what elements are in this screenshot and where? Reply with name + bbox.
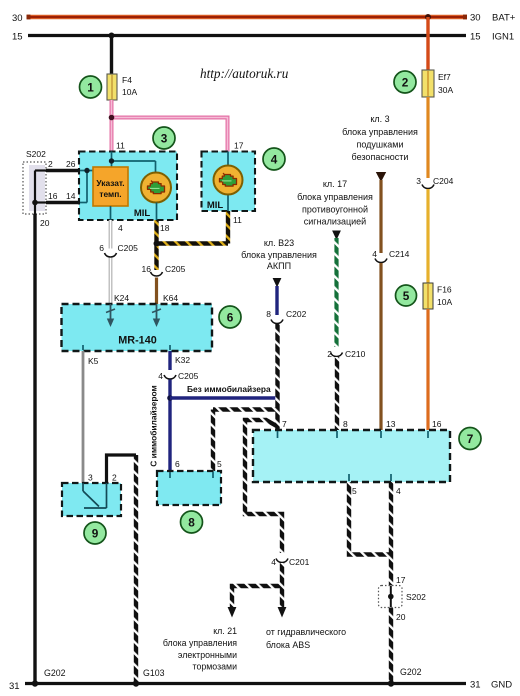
svg-text:4: 4 xyxy=(372,249,377,259)
svg-text:блока управления: блока управления xyxy=(163,638,237,648)
svg-text:противоугонной: противоугонной xyxy=(302,205,368,215)
svg-text:блока ABS: блока ABS xyxy=(266,640,310,650)
bus 30 BAT+ xyxy=(27,15,468,20)
connector C210 xyxy=(331,353,343,357)
node pink junction xyxy=(109,115,115,121)
svg-text:C204: C204 xyxy=(433,176,454,186)
svg-text:2: 2 xyxy=(112,473,117,483)
svg-text:4: 4 xyxy=(271,557,276,567)
wire bw to G103 xyxy=(134,455,138,684)
svg-text:6: 6 xyxy=(175,459,180,469)
module 3 instrument cluster xyxy=(79,152,177,221)
label кл. 3 block xyxy=(342,114,418,162)
wire Ef7 to C204 xyxy=(426,97,429,178)
wire by horizontal to pin18 wire xyxy=(157,241,229,245)
wire bw branch to brake module xyxy=(232,586,282,608)
svg-text:8: 8 xyxy=(343,419,348,429)
module 4 MIL lamp xyxy=(202,152,256,212)
wire bw C201 down xyxy=(280,563,284,608)
svg-text:4: 4 xyxy=(118,223,123,233)
wire S202-16 to box3-14 xyxy=(46,201,80,205)
svg-text:G202: G202 xyxy=(400,667,422,677)
svg-text:8: 8 xyxy=(266,309,271,319)
svg-text:MR-140: MR-140 xyxy=(118,335,156,347)
svg-text:17: 17 xyxy=(234,141,244,151)
callout 9 xyxy=(84,522,106,544)
bus 31 GND xyxy=(25,682,466,685)
svg-text:11: 11 xyxy=(233,215,242,225)
svg-text:10A: 10A xyxy=(437,297,452,307)
svg-text:K5: K5 xyxy=(88,356,99,366)
module 7 xyxy=(253,430,450,482)
wire box3 lamp to pin18 xyxy=(156,203,158,221)
svg-text:2: 2 xyxy=(48,159,53,169)
svg-text:30: 30 xyxy=(12,13,23,24)
wire S202-2 to box3-26 xyxy=(46,169,80,173)
svg-text:2: 2 xyxy=(402,76,409,90)
label кл. 21 block xyxy=(163,626,237,672)
svg-text:кл. 21: кл. 21 xyxy=(213,626,237,636)
wire box3 internal 26-14 link xyxy=(80,171,93,203)
arrow alarm source xyxy=(332,231,341,241)
svg-text:Без иммобилайзера: Без иммобилайзера xyxy=(187,384,271,394)
node box3 pin11 xyxy=(109,158,114,163)
symbol arrow K64 input xyxy=(152,304,161,327)
node 15-junction xyxy=(109,33,115,39)
svg-text:7: 7 xyxy=(282,419,287,429)
svg-text:F4: F4 xyxy=(122,75,132,85)
gauge Указат. темп. xyxy=(93,167,128,206)
wire bw tap to C201 xyxy=(245,420,282,553)
bus 15 IGN1 xyxy=(28,34,466,37)
switch box9 xyxy=(83,483,107,508)
callout 6 xyxy=(219,306,241,328)
svg-text:6: 6 xyxy=(99,243,104,253)
wire bw C202 to box7 pin7 xyxy=(275,324,279,430)
wire box4 pin11 down xyxy=(226,211,230,244)
svg-text:АКПП: АКПП xyxy=(267,261,291,271)
wire bw box8 pin5 xyxy=(211,410,215,472)
svg-text:сигнализацией: сигнализацией xyxy=(304,217,366,227)
wire box4 internal xyxy=(227,152,229,212)
wire box3 internal pin11 xyxy=(111,152,156,174)
svg-text:C214: C214 xyxy=(389,249,410,259)
svg-text:16: 16 xyxy=(142,264,152,274)
wire 15 to fuse F4 xyxy=(110,36,113,75)
svg-text:C201: C201 xyxy=(289,557,310,567)
svg-text:C210: C210 xyxy=(345,349,366,359)
svg-text:C205: C205 xyxy=(178,371,199,381)
callout 5 xyxy=(396,285,417,306)
wire K32 blue upper xyxy=(168,351,171,370)
label кл. B23 xyxy=(241,238,317,271)
svg-text:GND: GND xyxy=(491,680,512,691)
svg-text:C202: C202 xyxy=(286,309,307,319)
svg-text:MIL: MIL xyxy=(207,200,224,211)
callout 1 xyxy=(80,76,102,98)
svg-text:9: 9 xyxy=(92,527,99,541)
module 9 xyxy=(62,483,121,516)
symbol arrow K24 input xyxy=(106,304,115,327)
svg-text:30: 30 xyxy=(470,13,481,24)
fuse F4 xyxy=(107,74,117,100)
svg-text:K64: K64 xyxy=(163,293,178,303)
wire MR140 pin stubs xyxy=(83,345,170,350)
node immobilizer split xyxy=(167,395,173,401)
connector C205 pin16 xyxy=(151,272,163,276)
wire brown airbag to C214 xyxy=(379,180,382,253)
indicator MIL lamp box4 xyxy=(214,166,243,195)
svg-text:кл. В23: кл. В23 xyxy=(264,238,294,248)
svg-text:15: 15 xyxy=(470,32,481,43)
svg-text:13: 13 xyxy=(386,419,396,429)
svg-text:темп.: темп. xyxy=(99,189,121,199)
svg-text:15: 15 xyxy=(12,32,23,43)
svg-text:F16: F16 xyxy=(437,285,452,295)
wire blue branch without immobilizer xyxy=(170,396,278,399)
wire bw box7 pin4 to ground xyxy=(389,482,393,684)
node by junction xyxy=(154,241,160,247)
svg-text:26: 26 xyxy=(66,159,76,169)
wire K5 grey xyxy=(82,351,85,484)
wire B23 blue xyxy=(275,286,278,315)
wire box9 pin2 black xyxy=(107,455,137,483)
svg-text:K32: K32 xyxy=(175,355,190,365)
svg-text:17: 17 xyxy=(396,575,406,585)
svg-text:от гидравлического: от гидравлического xyxy=(266,627,346,637)
wire K24 white from box3 pin4 xyxy=(109,220,113,304)
fuse F16 xyxy=(423,283,433,309)
svg-text:7: 7 xyxy=(467,432,474,446)
svg-text:6: 6 xyxy=(227,311,234,325)
connector C204 xyxy=(422,185,434,189)
svg-text:10A: 10A xyxy=(122,87,137,97)
wire bw box7 pin5 xyxy=(349,482,391,555)
svg-text:1: 1 xyxy=(87,81,94,95)
connector S202 top-left xyxy=(23,149,46,214)
wire bw horizontal to box8 pin5 xyxy=(213,407,278,411)
svg-text:16: 16 xyxy=(48,191,58,201)
svg-text:С иммобилайзером: С иммобилайзером xyxy=(149,385,159,466)
connector C201 xyxy=(276,559,288,563)
wire C204 to F16 xyxy=(426,189,429,283)
wire pink F4 to box3 pin11 xyxy=(110,100,114,152)
arrow to brake module xyxy=(228,607,237,618)
svg-text:MIL: MIL xyxy=(134,208,151,219)
svg-text:30A: 30A xyxy=(438,85,453,95)
svg-text:2: 2 xyxy=(327,349,332,359)
wire pink branch to box4 pin17 xyxy=(112,118,228,152)
svg-text:блока управления: блока управления xyxy=(241,250,317,260)
wire F16 to box7 pin16 xyxy=(426,309,429,430)
module 6 MR-140 xyxy=(62,304,213,351)
wire K32 blue lower to box8 pin6 xyxy=(168,380,171,472)
svg-text:C205: C205 xyxy=(118,243,139,253)
wire box7 pin stubs xyxy=(278,431,429,481)
svg-text:BAT+: BAT+ xyxy=(492,13,516,24)
svg-text:IGN1: IGN1 xyxy=(492,32,514,43)
svg-text:20: 20 xyxy=(396,612,406,622)
callout 2 xyxy=(394,71,416,93)
svg-text:4: 4 xyxy=(396,486,401,496)
wire box3 gauge to pin4 xyxy=(110,206,112,220)
wire gw alarm to C210 xyxy=(334,238,338,347)
wire box8 pin stubs xyxy=(170,472,213,478)
svg-text:C205: C205 xyxy=(165,264,186,274)
connector S202 bottom xyxy=(379,575,427,622)
wire S202-20 to G202 ground xyxy=(33,214,36,684)
svg-text:5: 5 xyxy=(403,289,410,303)
wire K64 brown xyxy=(155,278,158,305)
svg-text:безопасности: безопасности xyxy=(352,152,409,162)
svg-text:K24: K24 xyxy=(114,293,129,303)
svg-text:31: 31 xyxy=(470,680,481,691)
svg-text:Указат.: Указат. xyxy=(96,178,124,188)
node G202 left xyxy=(32,680,38,686)
svg-text:11: 11 xyxy=(116,141,125,151)
node S202 pin20 junction xyxy=(32,200,38,206)
label от гидравлического блока ABS xyxy=(266,627,346,650)
callout 3 xyxy=(153,127,175,149)
connector C202 xyxy=(271,320,283,324)
svg-text:18: 18 xyxy=(160,223,170,233)
wire S202 internal xyxy=(35,171,46,215)
callout 4 xyxy=(263,148,285,170)
label кл. 17 block xyxy=(297,179,373,227)
wire pin18 down xyxy=(154,220,158,270)
connector C214 xyxy=(375,259,387,263)
svg-text:4: 4 xyxy=(271,153,278,167)
svg-text:блока управления: блока управления xyxy=(342,127,418,137)
svg-text:кл. 17: кл. 17 xyxy=(323,179,347,189)
svg-text:блока управления: блока управления xyxy=(297,192,373,202)
node 30-junction xyxy=(425,14,431,20)
node G103 xyxy=(133,680,139,686)
arrow airbag source xyxy=(376,172,386,182)
wire brown C214 to box7 pin13 xyxy=(379,263,382,430)
svg-text:14: 14 xyxy=(66,191,76,201)
svg-text:Ef7: Ef7 xyxy=(438,72,451,82)
svg-text:G103: G103 xyxy=(143,668,165,678)
svg-text:31: 31 xyxy=(9,681,20,692)
node G202 right xyxy=(388,680,394,686)
svg-text:3: 3 xyxy=(416,176,421,186)
svg-text:16: 16 xyxy=(432,419,442,429)
svg-text:5: 5 xyxy=(352,486,357,496)
svg-text:4: 4 xyxy=(158,371,163,381)
svg-text:кл. 3: кл. 3 xyxy=(370,114,389,124)
callout 8 xyxy=(181,511,203,533)
svg-text:20: 20 xyxy=(40,218,50,228)
wire 30 to fuse Ef7 xyxy=(426,17,429,70)
callout 7 xyxy=(459,428,481,450)
svg-text:тормозами: тормозами xyxy=(193,662,238,672)
connector C205 pin6 xyxy=(105,253,117,257)
wire bw C210 to box7 pin8 xyxy=(335,357,339,430)
indicator MIL lamp box3 xyxy=(141,173,171,203)
svg-text:3: 3 xyxy=(88,473,93,483)
svg-text:электронными: электронными xyxy=(178,650,237,660)
arrow to ABS xyxy=(278,607,287,618)
svg-text:S202: S202 xyxy=(26,149,46,159)
svg-text:5: 5 xyxy=(217,459,222,469)
arrow B23 source xyxy=(273,278,282,288)
svg-text:S202: S202 xyxy=(406,592,426,602)
svg-text:http://autoruk.ru: http://autoruk.ru xyxy=(200,66,289,81)
svg-text:8: 8 xyxy=(188,516,195,530)
svg-text:G202: G202 xyxy=(44,668,66,678)
svg-text:3: 3 xyxy=(161,132,168,146)
node box3 pin26 xyxy=(84,168,89,173)
module 8 xyxy=(157,471,221,505)
fuse Ef7 xyxy=(422,70,434,97)
svg-text:подушками: подушками xyxy=(356,140,403,150)
connector C205 pin4 xyxy=(164,375,176,379)
